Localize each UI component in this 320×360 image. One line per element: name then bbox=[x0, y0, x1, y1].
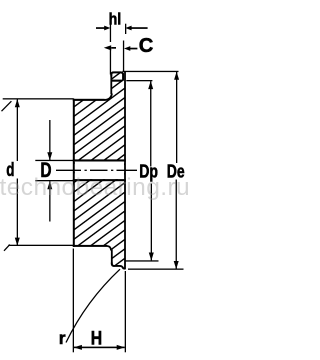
H dim line bbox=[74, 347, 125, 349]
d dimension line upper segment bbox=[17, 99, 18, 161]
boot left face bbox=[111, 250, 113, 265]
d down arrow bbox=[15, 238, 20, 246]
De bottom down arrow bbox=[174, 261, 179, 269]
C right tail bbox=[130, 48, 138, 50]
svg-text:r: r bbox=[59, 328, 66, 348]
H right ext line bbox=[125, 271, 126, 352]
H left ext line bbox=[73, 249, 74, 353]
d dimension line lower segment bbox=[17, 179, 18, 246]
Dp bottom down arrow bbox=[149, 253, 154, 261]
bore band top edge bbox=[73, 159, 126, 161]
bore band (white hole) bbox=[75, 162, 124, 180]
h1 right arrow bbox=[125, 26, 131, 31]
fillet hub-top to plate face bbox=[104, 94, 112, 100]
tooth chamfer right face bbox=[123, 74, 124, 81]
h1 left ext tick bbox=[110, 24, 111, 42]
H left arrow (outward) bbox=[74, 345, 82, 350]
Dp top ext line bbox=[126, 80, 152, 81]
h1 left ext lower part bbox=[110, 49, 111, 75]
d bottom extension line bbox=[8, 245, 74, 246]
De top dim line bbox=[176, 72, 177, 163]
svg-text:C: C bbox=[139, 35, 154, 57]
hub outline: left face bbox=[73, 99, 75, 247]
D top ext line bbox=[35, 160, 73, 161]
plate left face bbox=[110, 74, 112, 95]
bore band bottom edge bbox=[73, 179, 126, 181]
H right arrow (outward) bbox=[117, 345, 125, 350]
sprocket section body (hatched): hub + plate + rim + boot bbox=[74, 71, 125, 266]
D bottom ext line bbox=[35, 180, 73, 181]
C left tail bbox=[111, 47, 116, 49]
pitch line inside tooth (shoulder) bbox=[111, 80, 123, 82]
hub bottom edge bbox=[73, 245, 108, 247]
svg-text:technobearing.ru: technobearing.ru bbox=[0, 174, 190, 201]
boot bottom edge with corners bbox=[112, 263, 125, 269]
d top extension line bbox=[3, 98, 74, 99]
fillet hub-bottom to boot face bbox=[107, 246, 111, 251]
C right arrow bbox=[124, 46, 130, 51]
Dp bottom ext line bbox=[125, 260, 158, 261]
De top ext line bbox=[122, 71, 178, 72]
De top up arrow bbox=[174, 72, 179, 80]
svg-text:H: H bbox=[91, 328, 102, 349]
d bottom slash bbox=[4, 245, 10, 251]
centerline (axis) dash-dot bbox=[56, 169, 137, 171]
Dp top dim line bbox=[150, 81, 151, 166]
D lower dimension line bbox=[49, 181, 50, 221]
h1 right ext tick bbox=[125, 24, 126, 34]
d top slash bbox=[2, 101, 12, 111]
C right ext line bbox=[123, 41, 124, 72]
D down arrow bbox=[47, 152, 52, 160]
Dp bottom dim line bbox=[151, 184, 152, 261]
D up arrow bbox=[47, 181, 52, 189]
d up arrow bbox=[15, 99, 20, 107]
De bottom dim line bbox=[176, 180, 177, 269]
tooth tip: top-left corner, top edge, top-right corner bbox=[111, 72, 123, 80]
Dp top up arrow bbox=[148, 81, 153, 89]
De bottom ext line bbox=[128, 269, 184, 270]
h1 left tail bbox=[96, 27, 105, 29]
D upper dimension line bbox=[49, 120, 50, 160]
C left arrow bbox=[104, 45, 111, 50]
svg-text:hl: hl bbox=[109, 10, 122, 29]
h1 right tail bbox=[131, 27, 148, 29]
hub top edge bbox=[73, 99, 105, 101]
h1 left arrow bbox=[104, 26, 110, 31]
rim right face bbox=[124, 72, 126, 270]
